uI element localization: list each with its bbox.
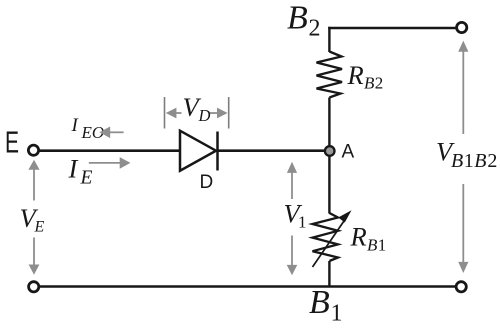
wire diode cathode to node A xyxy=(217,149,326,152)
wire emitter horizontal xyxy=(39,149,181,152)
svg-text:B: B xyxy=(309,284,330,321)
arrow V1 down xyxy=(291,236,293,266)
svg-text:1: 1 xyxy=(331,301,343,327)
svg-text:1: 1 xyxy=(464,150,474,172)
arrow VE down xyxy=(33,238,35,266)
svg-text:A: A xyxy=(342,142,355,163)
svg-text:E: E xyxy=(80,168,93,189)
wire node A to RB1 xyxy=(328,155,330,214)
svg-text:1: 1 xyxy=(298,213,307,232)
arrow VD right xyxy=(210,112,218,114)
svg-text:E: E xyxy=(34,219,45,236)
measurement bar VD left xyxy=(164,97,166,129)
wire B2 vertical top xyxy=(328,27,330,52)
resistor RB1 zigzag xyxy=(313,213,339,261)
arrow IEO left xyxy=(109,131,124,133)
arrow VB1B2 down xyxy=(462,184,464,262)
svg-text:2: 2 xyxy=(309,16,321,42)
arrow V1 up xyxy=(291,172,293,199)
svg-text:2: 2 xyxy=(487,150,497,172)
arrow VB1B2 up xyxy=(462,51,464,134)
svg-text:R: R xyxy=(347,60,364,90)
terminal E circle xyxy=(28,145,38,155)
svg-text:2: 2 xyxy=(375,74,384,93)
wire bottom horizontal xyxy=(39,285,457,288)
resistor RB2 zigzag xyxy=(317,52,343,98)
svg-text:B: B xyxy=(287,0,308,37)
svg-text:D: D xyxy=(198,106,211,125)
arrow VD left xyxy=(176,112,182,114)
resistor RB1 variable arrow line xyxy=(313,220,346,268)
arrow VE up xyxy=(33,169,35,201)
wire RB2 to node A xyxy=(328,98,330,148)
arrow IE right xyxy=(89,162,121,164)
wire RB1 to bottom xyxy=(328,261,330,287)
svg-text:B: B xyxy=(367,236,378,255)
terminal bottom-left circle xyxy=(29,282,39,292)
diode D triangle xyxy=(180,131,216,171)
svg-text:I: I xyxy=(71,115,80,136)
node A dot xyxy=(325,146,335,156)
terminal B2 side circle xyxy=(457,22,467,32)
diode D cathode bar xyxy=(216,132,219,171)
resistor RB1 variable arrowhead xyxy=(338,210,351,222)
svg-text:B: B xyxy=(364,74,375,93)
svg-text:B: B xyxy=(451,150,463,172)
svg-text:D: D xyxy=(200,172,214,193)
svg-text:1: 1 xyxy=(378,236,387,255)
measurement bar VD right xyxy=(228,97,230,129)
terminal bottom-right circle xyxy=(456,282,466,292)
svg-text:E: E xyxy=(5,125,19,159)
svg-text:I: I xyxy=(68,154,79,184)
svg-text:R: R xyxy=(350,222,367,252)
svg-text:B: B xyxy=(474,150,486,172)
wire top horizontal to terminal xyxy=(328,27,456,29)
